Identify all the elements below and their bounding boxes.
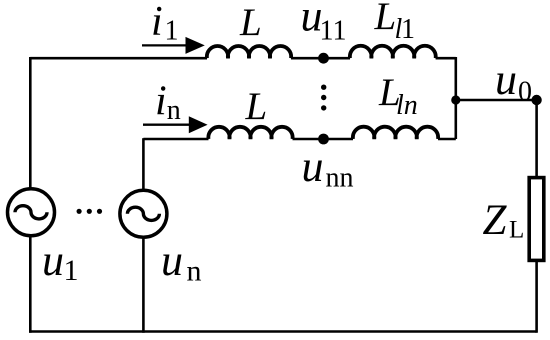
wire bottom return <box>29 330 537 333</box>
horizontal ellipsis between sources <box>77 209 103 214</box>
wire Lln to right vertical <box>438 138 456 141</box>
arrow in current direction <box>143 116 208 133</box>
svg-text:nn: nn <box>326 163 354 194</box>
wire left vertical rail (top wire down to source u1) <box>29 57 32 190</box>
label i1 <box>151 0 179 46</box>
vertical ellipsis between branches <box>321 85 326 111</box>
arrow i1 current direction <box>142 37 205 54</box>
wire u0 down to load <box>535 100 538 177</box>
wire left vertical rail (source u1 down to bottom wire) <box>29 235 32 333</box>
label u0 <box>495 55 532 107</box>
svg-text:u: u <box>161 236 183 285</box>
svg-text:i: i <box>155 78 167 124</box>
wire load to bottom wire <box>535 260 538 333</box>
wire top-left horizontal (source u1 to inductor L) <box>30 57 207 60</box>
label in <box>155 78 181 125</box>
inductor L (branch 1) <box>207 46 291 58</box>
wire right vertical joining branch1 and branch n <box>454 57 457 139</box>
wire vertical from branch n to source un <box>142 138 145 191</box>
svg-text:i: i <box>151 0 163 45</box>
label u11 <box>301 0 347 46</box>
node junction dot at right vertical <box>451 95 460 104</box>
svg-text:11: 11 <box>320 15 347 46</box>
label Lln <box>378 71 418 121</box>
svg-text:0: 0 <box>518 76 532 107</box>
label un <box>161 236 202 288</box>
svg-text:Z: Z <box>483 197 508 244</box>
AC source u1 <box>8 189 55 236</box>
svg-text:u: u <box>42 236 64 285</box>
label u1 <box>42 236 79 287</box>
inductor Lln (leakage, branch n) <box>353 127 438 139</box>
AC source un <box>120 190 167 237</box>
svg-text:1: 1 <box>401 14 415 45</box>
label Ll1 <box>374 0 416 45</box>
svg-text:L: L <box>374 0 397 38</box>
node unn junction dot <box>318 134 329 145</box>
svg-text:u: u <box>302 142 324 191</box>
node u0 dot <box>531 95 541 105</box>
svg-text:L: L <box>509 217 524 244</box>
wire between L and node u11 <box>291 57 350 60</box>
label Z_L <box>483 197 525 244</box>
svg-text:n: n <box>187 255 202 288</box>
svg-text:ln: ln <box>396 90 418 121</box>
svg-text:L: L <box>239 1 262 44</box>
svg-text:u: u <box>495 55 517 104</box>
wire vertical from source un to bottom wire <box>142 237 145 333</box>
load Z_L <box>529 178 544 261</box>
inductor Ll1 (leakage, branch 1) <box>350 46 436 58</box>
wire output to node u0 <box>456 99 537 102</box>
svg-text:1: 1 <box>165 15 179 46</box>
inductor L (branch n) <box>208 127 292 139</box>
svg-text:L: L <box>245 85 268 128</box>
wire between L and node unn <box>293 138 354 141</box>
svg-text:1: 1 <box>64 254 79 287</box>
label unn <box>302 142 354 194</box>
node u11 junction dot <box>318 53 329 64</box>
wire branch n left (source un up and to inductor) <box>143 138 208 141</box>
wire Ll1 to right vertical <box>436 57 456 60</box>
svg-text:n: n <box>167 95 181 126</box>
